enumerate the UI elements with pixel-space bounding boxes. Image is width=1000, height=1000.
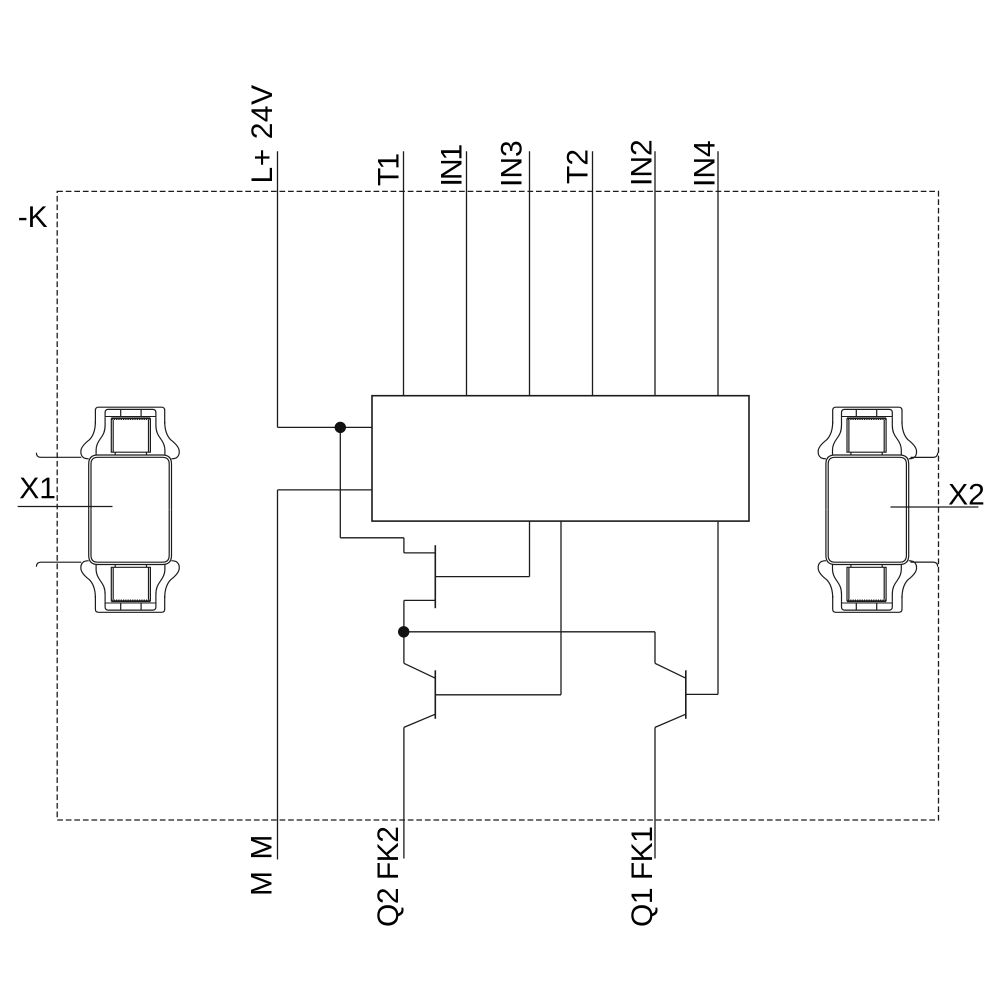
block U1: [372, 396, 749, 521]
wire step right: [340, 537, 404, 539]
wire Q1 collector vertical: [654, 632, 656, 664]
transistor Q2 emitter diagonal: [404, 714, 435, 727]
svg-text:-K: -K: [18, 201, 48, 234]
transistor Q1 bar: [685, 670, 687, 719]
connector X2 top cable stub: [911, 453, 938, 458]
transistor Q2 collector diagonal: [404, 663, 435, 678]
svg-text:IN2: IN2: [626, 139, 659, 186]
wire M horizontal from block: [278, 489, 373, 491]
wire L+ horizontal into block: [278, 426, 373, 428]
connector X1 top half: [81, 407, 179, 510]
wire Q1 emitter vertical: [654, 727, 656, 858]
wire T1: [403, 151, 405, 395]
transistor Q2 bar: [434, 670, 436, 719]
wire Q1 base vertical from block: [717, 521, 719, 694]
svg-text:X1: X1: [19, 472, 56, 505]
svg-text:Q2 FK2: Q2 FK2: [372, 827, 405, 927]
dashed enclosure -K: [57, 191, 938, 820]
wire V1 gate vertical to block: [529, 521, 531, 577]
svg-text:T2: T2: [561, 149, 594, 184]
wire step down: [403, 538, 405, 553]
wire Q2 emitter vertical: [403, 727, 405, 858]
node B junction dot: [398, 626, 409, 637]
connector X2 bottom cable stub: [911, 562, 938, 567]
wire Q1 base horizontal: [686, 693, 718, 695]
connector X2 top half: [818, 407, 916, 510]
label X2 leader line: [891, 506, 979, 508]
wire V1 gate horizontal: [435, 576, 529, 578]
connector X1 bottom cable stub: [36, 562, 81, 567]
wire Q2 base vertical from block: [560, 521, 562, 695]
connector X1 top cable stub: [36, 453, 81, 458]
connector X2 bottom half: [818, 510, 916, 613]
node A junction dot: [335, 422, 346, 433]
svg-text:T1: T1: [372, 154, 405, 186]
wire Q2 collector down from node B: [403, 632, 405, 664]
svg-text:IN3: IN3: [496, 140, 529, 187]
wire IN1: [466, 151, 468, 395]
svg-text:Q1 FK1: Q1 FK1: [626, 827, 659, 927]
svg-text:L+ 24V: L+ 24V: [246, 84, 279, 183]
wire IN2: [654, 151, 656, 395]
wire IN4: [717, 151, 719, 395]
wire T2: [592, 151, 594, 395]
wire V1 source horizontal: [404, 599, 435, 601]
wire L+ vertical: [277, 151, 279, 427]
wire V1 source down to node B: [403, 600, 405, 631]
svg-text:IN1: IN1: [436, 145, 469, 187]
wire from node A down: [339, 427, 341, 537]
transistor V1 bar: [434, 545, 436, 608]
wire M vertical: [277, 490, 279, 860]
wire IN3: [529, 151, 531, 395]
svg-text:M M: M M: [246, 833, 279, 896]
transistor Q1 emitter diagonal: [655, 714, 686, 727]
svg-text:X2: X2: [948, 479, 985, 512]
label X1 leader line: [18, 506, 113, 508]
transistor Q1 collector diagonal: [655, 663, 686, 678]
wire drain into V1: [404, 552, 435, 554]
wire node B long horizontal: [404, 631, 655, 633]
connector X1 bottom half: [81, 510, 179, 613]
svg-text:IN4: IN4: [689, 140, 722, 187]
wire Q2 base horizontal: [435, 694, 561, 696]
